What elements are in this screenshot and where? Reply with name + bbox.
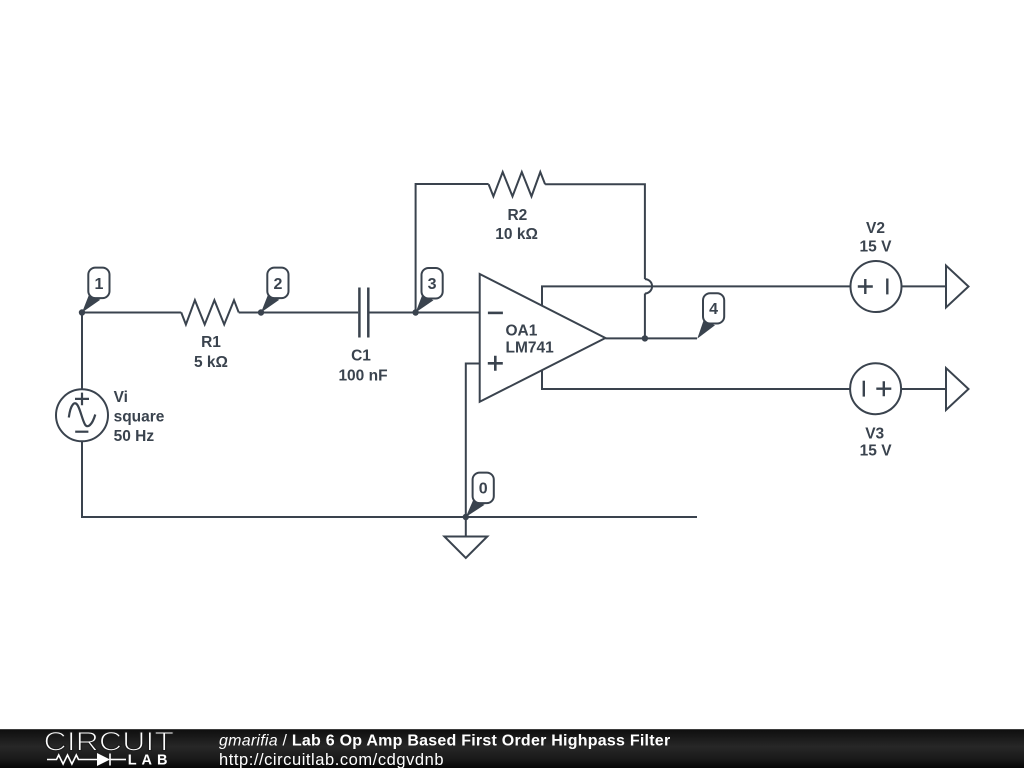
svg-text:1: 1	[94, 276, 103, 293]
svg-text:10 kΩ: 10 kΩ	[495, 226, 538, 243]
svg-text:15 V: 15 V	[860, 238, 893, 255]
svg-text:gmarifia / Lab 6 Op Amp Based: gmarifia / Lab 6 Op Amp Based First Orde…	[219, 733, 670, 750]
svg-text:R1: R1	[201, 334, 221, 351]
svg-text:V2: V2	[866, 220, 885, 237]
svg-text:0: 0	[479, 481, 488, 498]
svg-text:50 Hz: 50 Hz	[114, 428, 155, 445]
svg-text:http://circuitlab.com/cdgvdnb: http://circuitlab.com/cdgvdnb	[219, 751, 444, 768]
svg-text:LM741: LM741	[506, 340, 555, 357]
svg-text:R2: R2	[507, 207, 527, 224]
svg-text:square: square	[114, 409, 165, 426]
svg-text:Vi: Vi	[114, 389, 128, 406]
svg-text:C1: C1	[351, 347, 371, 364]
svg-text:LAB: LAB	[128, 752, 173, 768]
svg-text:2: 2	[273, 276, 282, 293]
svg-text:5 kΩ: 5 kΩ	[194, 354, 228, 371]
svg-text:3: 3	[428, 276, 437, 293]
svg-text:4: 4	[709, 301, 718, 318]
svg-text:OA1: OA1	[506, 323, 538, 340]
svg-text:100 nF: 100 nF	[338, 368, 387, 385]
svg-text:V3: V3	[865, 425, 884, 442]
svg-text:15 V: 15 V	[860, 443, 893, 460]
